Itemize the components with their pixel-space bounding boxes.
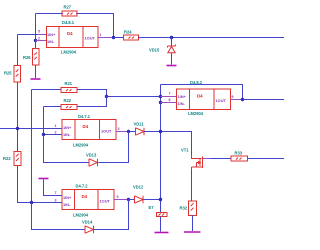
wire D4.8.2 output xyxy=(231,99,243,101)
svg-text:9: 9 xyxy=(117,195,119,199)
wire output to VD12 xyxy=(129,199,135,201)
resistor R32 xyxy=(189,201,197,216)
svg-text:1IN-: 1IN- xyxy=(63,132,71,137)
svg-text:R21: R21 xyxy=(65,81,73,86)
svg-text:VD14: VD14 xyxy=(82,220,93,225)
ground E7 xyxy=(155,232,169,234)
svg-text:3: 3 xyxy=(118,127,120,131)
svg-text:9: 9 xyxy=(232,95,234,99)
op-amp U3 D4.7.1 xyxy=(62,120,116,140)
ground R32 xyxy=(184,231,201,233)
node D4.7.2 output junction xyxy=(127,198,130,201)
svg-text:1OUT: 1OUT xyxy=(101,129,112,134)
ground R26 xyxy=(31,78,41,80)
wire D4.7.1 IN+ from left edge xyxy=(0,128,62,130)
svg-text:D4.8.2: D4.8.2 xyxy=(190,80,203,85)
svg-text:1IN+: 1IN+ xyxy=(63,125,72,130)
svg-text:1IN-: 1IN- xyxy=(47,39,55,44)
svg-text:VD12: VD12 xyxy=(133,185,144,190)
svg-text:2: 2 xyxy=(55,130,57,134)
wire VD12 to center rail xyxy=(143,199,161,201)
svg-text:8: 8 xyxy=(169,98,171,102)
wire common stem to IN+ xyxy=(44,180,63,196)
node D4.8.2 IN+ xyxy=(159,95,162,98)
node D4.8.2 IN- xyxy=(159,101,162,104)
wire E7 to ground xyxy=(160,217,162,232)
node D4.7.1 IN- junction xyxy=(42,133,45,136)
wire rail3 R22 left down xyxy=(43,107,45,135)
resistor R25 xyxy=(14,66,21,83)
resistor R27 xyxy=(62,11,77,16)
svg-text:VD13: VD13 xyxy=(86,153,97,158)
wire D4.7.2 IN- xyxy=(32,202,63,204)
svg-text:D4: D4 xyxy=(82,194,88,199)
svg-text:1: 1 xyxy=(55,124,57,128)
svg-text:D4.7.2: D4.7.2 xyxy=(76,183,89,188)
svg-text:LM2904: LM2904 xyxy=(73,213,89,218)
wire pin lead IN+ D4.8.1 xyxy=(38,34,47,36)
wire pin lead IN- D4.8.2 xyxy=(161,102,177,104)
wire feedback loop R27 left vertical xyxy=(35,14,37,41)
resistor R22 xyxy=(61,105,77,110)
node rail2 IN- junction xyxy=(30,201,33,204)
wire junction to D4.8.2 inputs xyxy=(107,96,161,98)
node A: op-amp U1 input junction xyxy=(34,39,37,42)
wire D4.8.1 output pin lead xyxy=(98,37,114,39)
svg-text:LM2904: LM2904 xyxy=(188,111,204,116)
op-amp U1 D4.8.1 xyxy=(47,27,99,48)
resistor R26 xyxy=(33,49,40,66)
ground D4.7.2 IN+ common bar xyxy=(39,178,49,180)
wire VD11 to gate line xyxy=(144,132,192,155)
wire R26 stem from IN- node xyxy=(35,41,37,49)
svg-text:1IN+: 1IN+ xyxy=(178,94,187,99)
ground VD15 common bar xyxy=(167,65,177,67)
svg-text:3: 3 xyxy=(55,198,57,202)
svg-text:D4.7.1: D4.7.1 xyxy=(78,114,91,119)
svg-text:2: 2 xyxy=(38,36,40,40)
wire D4.7.2 output xyxy=(114,199,129,201)
svg-text:R27: R27 xyxy=(64,5,72,10)
svg-text:5: 5 xyxy=(38,30,40,34)
wire D4.7.1 IN- xyxy=(44,134,63,136)
svg-text:1: 1 xyxy=(100,33,102,37)
node rail1 IN+ junction xyxy=(16,127,19,130)
wire R21 right to junction xyxy=(77,90,107,97)
wire D4.7.1 output xyxy=(116,131,129,133)
node center rail VD11 xyxy=(159,130,162,133)
wire VD15 to common xyxy=(171,53,173,65)
node VD15 tap xyxy=(170,36,173,39)
wire R33 to right edge xyxy=(248,158,285,160)
svg-text:D4: D4 xyxy=(83,124,89,129)
node R21 R22 junction xyxy=(105,95,108,98)
svg-text:1IN-: 1IN- xyxy=(178,101,186,106)
zener diode VD15 xyxy=(168,45,176,53)
svg-text:D4: D4 xyxy=(67,31,73,36)
wire R26 to ground xyxy=(35,65,37,78)
wire R27 top horizontal left xyxy=(36,13,64,15)
wire drain to R33 xyxy=(203,158,210,160)
wire D4.8.2 feedback top xyxy=(161,85,243,100)
diode VD14 xyxy=(85,226,94,233)
wire rail1 top segment xyxy=(17,35,19,66)
wire center rail xyxy=(160,85,162,213)
wire D4.7.1 feedback loop xyxy=(44,132,129,163)
wire output to R24 xyxy=(114,37,124,39)
wire R22 left xyxy=(44,106,62,108)
wire R27 top horizontal right and down to output xyxy=(76,14,114,38)
op-amp U2 D4.8.2 xyxy=(177,89,231,110)
svg-text:VD11: VD11 xyxy=(134,122,145,127)
wire rail1 bottom to corner xyxy=(18,166,32,203)
wire output to right edge xyxy=(243,99,285,101)
wire R32 to ground xyxy=(192,216,194,232)
node D4.7.1 output junction xyxy=(127,130,130,133)
wire pin lead IN- D4.8.1 xyxy=(36,40,47,42)
wire R22 right up to junction xyxy=(77,97,107,107)
node D4.8.2 output junction xyxy=(241,98,244,101)
svg-text:1IN+: 1IN+ xyxy=(63,195,72,200)
svg-text:R24: R24 xyxy=(124,30,132,35)
wire D4.8.1 IN+ from left rail xyxy=(18,34,39,36)
wire VD15 stem xyxy=(171,38,173,46)
svg-text:1OUT: 1OUT xyxy=(85,36,96,41)
diode VD11 xyxy=(136,128,145,135)
wire D4.7.2 feedback loop down xyxy=(32,200,129,230)
wire top net to right edge xyxy=(139,37,285,39)
capacitor E7 plate xyxy=(157,213,168,217)
transistor Q1 VT1 MOSFET xyxy=(192,155,203,171)
wire rail2 R21 left down xyxy=(31,90,33,203)
svg-text:E7: E7 xyxy=(149,205,155,210)
svg-text:VT1: VT1 xyxy=(181,148,189,153)
wire output to VD11 xyxy=(129,131,136,133)
svg-text:1IN-: 1IN- xyxy=(63,202,71,207)
svg-text:LM2904: LM2904 xyxy=(73,143,89,148)
wire rail1 mid segment xyxy=(17,82,19,152)
resistor R23 xyxy=(14,152,21,166)
resistor R24 xyxy=(124,35,139,40)
svg-text:R26: R26 xyxy=(23,55,31,60)
svg-text:VD15: VD15 xyxy=(149,48,160,53)
svg-text:1OUT: 1OUT xyxy=(100,199,111,204)
wire source down to R32 xyxy=(191,170,193,201)
diode VD13 xyxy=(89,159,98,166)
resistor R33 xyxy=(231,156,248,161)
svg-text:LM2904: LM2904 xyxy=(61,50,77,55)
svg-text:1IN+: 1IN+ xyxy=(47,32,56,37)
svg-text:7: 7 xyxy=(169,92,171,96)
wire pin lead IN+ D4.8.2 xyxy=(161,96,177,98)
svg-text:7: 7 xyxy=(55,191,57,195)
node center rail VD12 xyxy=(159,198,162,201)
svg-text:R33: R33 xyxy=(235,151,243,156)
wire R21 left xyxy=(32,89,62,91)
svg-text:D4.8.1: D4.8.1 xyxy=(62,20,75,25)
svg-text:D4: D4 xyxy=(197,94,203,99)
svg-text:R32: R32 xyxy=(180,206,188,211)
svg-text:R23: R23 xyxy=(3,156,11,161)
svg-text:1OUT: 1OUT xyxy=(216,98,227,103)
svg-text:R25: R25 xyxy=(4,71,12,76)
node output U1 junction xyxy=(112,36,115,39)
diode VD12 xyxy=(135,196,144,203)
svg-text:R22: R22 xyxy=(64,98,72,103)
resistor R21 xyxy=(61,88,77,93)
op-amp U4 D4.7.2 xyxy=(62,190,114,210)
